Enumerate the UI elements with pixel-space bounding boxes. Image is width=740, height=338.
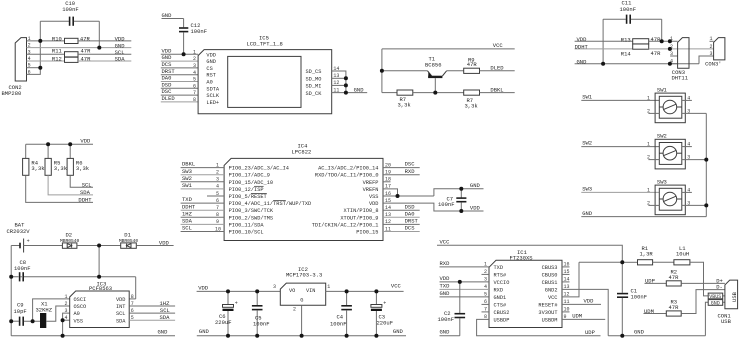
svg-text:SD_MO: SD_MO — [306, 77, 322, 83]
svg-text:VREFP: VREFP — [363, 180, 379, 186]
svg-text:D-: D- — [716, 284, 723, 291]
svg-text:VCCIO: VCCIO — [494, 280, 510, 286]
svg-text:DLED: DLED — [162, 95, 176, 102]
svg-text:R12: R12 — [52, 56, 62, 63]
svg-text:RXD: RXD — [405, 168, 416, 175]
wire SW1 pin4 — [181, 188, 225, 190]
wire DSD pin6 — [161, 87, 198, 89]
svg-text:GND: GND — [711, 300, 720, 306]
wire R11 to SCL — [78, 53, 131, 55]
wire collector to R9 — [447, 70, 464, 72]
wire DRST pin12 — [383, 223, 420, 225]
svg-text:CBUS2: CBUS2 — [494, 310, 510, 316]
junction diode node — [97, 244, 101, 248]
svg-text:VREFN: VREFN — [363, 187, 379, 193]
wire SD_MI pin12 — [332, 84, 346, 86]
resistor R12 47R — [52, 56, 91, 63]
junction C7 top — [459, 187, 463, 191]
wire R14 to CON3' pin2 — [649, 48, 714, 50]
junction pin1 end — [668, 39, 672, 43]
svg-text:8: 8 — [131, 294, 134, 300]
svg-text:DDHT: DDHT — [78, 197, 92, 204]
svg-text:4: 4 — [65, 315, 68, 321]
svg-text:VCC: VCC — [440, 238, 451, 245]
svg-text:DDHT: DDHT — [575, 44, 589, 51]
svg-text:10pF: 10pF — [14, 308, 27, 315]
svg-text:XTOUT/PIO0_9: XTOUT/PIO0_9 — [340, 215, 378, 221]
wire UDP to R2 — [645, 282, 667, 284]
svg-text:OSCI: OSCI — [74, 297, 87, 303]
svg-text:SW1: SW1 — [582, 94, 593, 101]
svg-text:VDD: VDD — [584, 298, 595, 305]
svg-text:SD_CK: SD_CK — [306, 91, 323, 97]
connector CON3' — [705, 36, 725, 67]
svg-text:6: 6 — [193, 83, 196, 89]
svg-text:SDA: SDA — [182, 218, 193, 225]
svg-text:PIO0_15: PIO0_15 — [356, 230, 378, 236]
wire DCS pin3 — [161, 67, 198, 69]
wire GND rail B — [197, 335, 406, 337]
svg-text:A0: A0 — [74, 311, 80, 317]
svg-text:SCL: SCL — [82, 182, 92, 189]
svg-text:VSS: VSS — [74, 318, 84, 324]
svg-text:3: 3 — [709, 51, 712, 57]
svg-text:4: 4 — [687, 142, 690, 148]
svg-text:OSCO: OSCO — [74, 304, 87, 310]
wire C11 right to VDD — [661, 19, 663, 41]
wire USBDP pin8 to UDP — [477, 319, 601, 335]
svg-text:47R: 47R — [669, 274, 680, 281]
svg-text:1: 1 — [193, 49, 196, 55]
svg-text:GND: GND — [393, 328, 404, 335]
wire CON2 pins 1-5-6 vertical — [27, 21, 41, 74]
wire pin2 stub — [482, 273, 490, 275]
svg-text:PIO0_12/ISP: PIO0_12/ISP — [229, 187, 264, 193]
junction C4 — [345, 289, 349, 293]
svg-text:PIO0_4/ADC_11/TRST/WUP/TXD: PIO0_4/ADC_11/TRST/WUP/TXD — [229, 201, 312, 207]
svg-text:CON3': CON3' — [705, 61, 722, 68]
svg-text:VCC: VCC — [391, 283, 402, 290]
junction rail C5 — [255, 334, 259, 338]
svg-text:R14: R14 — [621, 51, 632, 58]
wire R10 to VDD — [78, 40, 131, 42]
wire CON1 GND pin — [705, 302, 725, 336]
capacitor C8 100nF — [14, 259, 31, 282]
capacitor C3 220uF polarized — [371, 291, 393, 335]
wire R1 to L1 — [653, 261, 674, 263]
svg-text:PIO0_15/ADC_10: PIO0_15/ADC_10 — [229, 180, 274, 186]
svg-text:PIO0_3/SWC/TCK: PIO0_3/SWC/TCK — [229, 208, 274, 214]
pin names SD right — [306, 66, 340, 97]
svg-text:1: 1 — [647, 142, 650, 148]
svg-text:100nF: 100nF — [14, 265, 31, 272]
svg-text:RESET#: RESET# — [538, 303, 558, 309]
wire SD_MO pin13 — [332, 77, 346, 79]
wire D2 to D1 — [77, 245, 121, 247]
svg-text:PIO0_10/SCL: PIO0_10/SCL — [229, 230, 264, 236]
svg-text:USBDP: USBDP — [494, 318, 510, 324]
svg-text:GND: GND — [577, 58, 588, 65]
svg-text:MBR0540: MBR0540 — [60, 238, 80, 244]
wire DRST pin4 — [161, 74, 198, 76]
wire SCL pin10 — [181, 231, 225, 233]
svg-text:AC_I3/ADC_2/PIO0_14: AC_I3/ADC_2/PIO0_14 — [318, 166, 378, 172]
wire SW2 pin3 — [181, 181, 225, 183]
svg-text:RXD: RXD — [440, 260, 451, 267]
wire RXD pin1 — [440, 266, 490, 268]
svg-text:CR2032V: CR2032V — [7, 228, 31, 235]
svg-text:GND: GND — [158, 329, 169, 336]
wire R13 to CON3 pin1 — [649, 40, 678, 42]
svg-text:VO: VO — [289, 288, 295, 294]
svg-text:DDHT: DDHT — [182, 203, 196, 210]
svg-text:VDD: VDD — [369, 201, 379, 207]
wire GND pin5 — [440, 296, 490, 298]
wire DSD pin14 — [383, 209, 420, 211]
svg-text:VDD: VDD — [159, 239, 170, 246]
svg-text:CBUS0: CBUS0 — [542, 273, 558, 279]
wire R7b to DBKL — [480, 92, 515, 94]
svg-text:220uF: 220uF — [215, 319, 232, 326]
svg-text:1HZ: 1HZ — [160, 300, 171, 307]
svg-text:GND: GND — [354, 86, 365, 93]
svg-text:VCC: VCC — [548, 295, 558, 301]
svg-text:100nF: 100nF — [438, 316, 455, 323]
diode D1 MBR0540 — [119, 232, 139, 249]
wire pin7 stub — [482, 311, 490, 313]
wire GND rail C — [608, 335, 705, 337]
wire base row left — [382, 92, 397, 94]
svg-text:3: 3 — [273, 284, 276, 290]
wire TXD pin6 — [181, 202, 225, 204]
svg-text:2: 2 — [293, 307, 296, 313]
junction pin16/17 — [396, 194, 400, 198]
svg-text:PCF8563: PCF8563 — [89, 285, 112, 292]
wire pin3 to R11 — [27, 53, 65, 55]
wire pin14 stub — [562, 281, 570, 283]
resistor R5 3,3k — [45, 158, 68, 175]
capacitor C2 100nF — [438, 282, 466, 336]
svg-text:USB: USB — [721, 318, 732, 325]
svg-text:1: 1 — [65, 294, 68, 300]
resistor R10 47R — [52, 36, 91, 44]
wire GND2 pin13 — [562, 289, 608, 335]
svg-text:47R: 47R — [81, 47, 92, 54]
svg-text:100nF: 100nF — [330, 320, 347, 327]
svg-text:GND: GND — [199, 328, 210, 335]
svg-text:3: 3 — [670, 51, 673, 57]
svg-text:XTIN/PIO0_8: XTIN/PIO0_8 — [344, 208, 379, 214]
wire R7 to base — [413, 92, 464, 94]
svg-text:PIO0_23/ADC_3/AC_I4: PIO0_23/ADC_3/AC_I4 — [229, 166, 289, 172]
svg-text:SW2: SW2 — [582, 140, 592, 147]
svg-text:2: 2 — [709, 44, 712, 50]
svg-text:SCL: SCL — [182, 225, 192, 232]
junction C3 — [374, 289, 378, 293]
junction base — [433, 91, 437, 95]
wire GND row — [575, 63, 699, 65]
svg-text:1: 1 — [327, 284, 330, 290]
svg-text:220uF: 220uF — [377, 319, 394, 326]
battery BAT CR2032V — [7, 222, 63, 253]
wire OSCI from C9 node — [33, 299, 70, 321]
IC regulator IC2 MCP1703-3.3 — [273, 266, 330, 313]
junction C7 bottom — [459, 209, 463, 213]
svg-text:PIO0_17/ADC_9: PIO0_17/ADC_9 — [229, 173, 270, 179]
wire USBDM pin9 to UDM — [562, 318, 605, 320]
svg-text:1: 1 — [709, 36, 712, 42]
junction rail C9 — [9, 319, 13, 323]
svg-text:SDA: SDA — [160, 314, 171, 321]
junction C12/pin1 — [182, 52, 186, 56]
svg-text:SCL: SCL — [160, 307, 170, 314]
wire C12 to VDD pin1 — [183, 32, 185, 54]
junction C5 — [255, 289, 259, 293]
svg-text:1: 1 — [647, 95, 650, 101]
wire C11 left to GND — [602, 19, 604, 64]
wire DLED pin8 — [161, 101, 198, 103]
svg-text:DBKL: DBKL — [490, 86, 503, 93]
wire R3 to D- — [681, 290, 725, 314]
svg-text:GND1: GND1 — [494, 295, 507, 301]
wire DCS pin11 — [383, 231, 420, 233]
wire pin8 VDD riser — [135, 277, 137, 299]
wire R4 bottom to DDHT — [26, 175, 93, 202]
svg-text:3,3k: 3,3k — [31, 165, 45, 172]
svg-text:5: 5 — [193, 77, 196, 83]
svg-text:TXD: TXD — [494, 265, 504, 271]
wire R6 bottom to SCL — [70, 175, 93, 187]
svg-text:PIO0_2/SWD/TMS: PIO0_2/SWD/TMS — [229, 215, 274, 221]
wire VDD pin3 — [440, 281, 490, 283]
wire pin16 stub — [562, 266, 570, 268]
svg-text:VCC: VCC — [493, 42, 504, 49]
junction pin13 — [344, 76, 348, 80]
wire X1 right to OSCO — [46, 306, 69, 321]
resistor R1 1,3R — [638, 245, 654, 265]
wire R5 bottom to SDA — [48, 175, 93, 195]
wire SW1 pin3 — [682, 112, 707, 114]
capacitor C12 100nF — [179, 22, 207, 35]
svg-text:DBKL: DBKL — [182, 161, 195, 168]
wire SW2 pin3 — [682, 159, 707, 161]
wire pin6 to SCL — [129, 312, 175, 314]
wire pin7 to 1HZ — [129, 305, 175, 307]
wire R12 to SDA — [78, 60, 131, 62]
junction SW3 pin3 — [704, 203, 708, 207]
wire diode node down to C8 node — [98, 246, 100, 277]
wire DSC pin20 — [383, 167, 420, 169]
svg-text:SD_MI: SD_MI — [306, 84, 322, 90]
svg-text:VSS: VSS — [369, 194, 379, 200]
svg-text:MCP1703-3.3: MCP1703-3.3 — [286, 272, 322, 279]
wire pin5 — [27, 67, 41, 69]
svg-text:4: 4 — [193, 70, 196, 76]
wire L1 to VBUS — [690, 262, 725, 296]
wire A0 VSS tie — [63, 313, 70, 336]
svg-text:CTS#: CTS# — [494, 303, 508, 309]
wire R1 lead — [622, 261, 637, 263]
svg-text:+: + — [235, 301, 238, 307]
svg-text:10uH: 10uH — [676, 251, 689, 258]
svg-text:3,3k: 3,3k — [398, 101, 412, 108]
capacitor C4 100nF — [330, 291, 352, 335]
wire C2 GND stub — [440, 335, 460, 337]
wire pin10 stub — [562, 311, 570, 313]
svg-text:+: + — [383, 301, 386, 307]
svg-text:MBR0540: MBR0540 — [119, 238, 139, 244]
junction pin11 — [344, 91, 348, 95]
wire DA0 pin13 — [383, 216, 420, 218]
wire 1HZ pin8 — [181, 216, 225, 218]
capacitor C6 220uF polarized — [215, 291, 238, 335]
crystal X1 32KHZ — [36, 300, 53, 328]
svg-text:32KHZ: 32KHZ — [36, 307, 53, 314]
inductor L1 10uH — [674, 245, 690, 265]
junction rail IC2 — [300, 334, 304, 338]
wire UDM to R3 — [644, 313, 667, 315]
wire switches GND vertical — [705, 113, 707, 216]
svg-text:R10: R10 — [52, 36, 62, 43]
junction rail A0/VSS — [61, 334, 65, 338]
svg-text:3,3k: 3,3k — [54, 165, 68, 172]
svg-text:47R: 47R — [467, 61, 478, 68]
wire R5 top — [47, 144, 49, 158]
junction R5 top — [46, 142, 50, 146]
wire pin15 stub — [562, 273, 570, 275]
svg-text:2: 2 — [647, 200, 650, 206]
svg-text:SW1: SW1 — [182, 182, 193, 189]
svg-text:RXD: RXD — [494, 288, 504, 294]
junction C11/VDD — [660, 39, 664, 43]
IC mcu IC4 LPC822 — [215, 143, 391, 241]
svg-text:SW2: SW2 — [182, 175, 192, 182]
svg-text:2: 2 — [647, 155, 650, 161]
wire VDD row — [575, 40, 633, 42]
wire VSS to GND line — [434, 189, 484, 196]
junction pin5 — [38, 66, 42, 70]
svg-text:2: 2 — [647, 108, 650, 114]
switch SW3 — [647, 178, 692, 214]
switch SW1 — [647, 86, 692, 122]
svg-text:1: 1 — [647, 187, 650, 193]
wire emitter — [382, 70, 428, 72]
svg-text:100nF: 100nF — [631, 294, 648, 301]
svg-text:GND: GND — [206, 59, 216, 65]
wire VCC top — [382, 48, 515, 50]
svg-text:VDD: VDD — [206, 52, 216, 58]
wire VDD pin1 — [161, 53, 198, 55]
svg-text:DSD: DSD — [405, 203, 416, 210]
junction rail C3 — [374, 334, 378, 338]
svg-text:CS: CS — [206, 66, 212, 72]
svg-text:SW3: SW3 — [182, 168, 192, 175]
svg-text:8: 8 — [193, 97, 196, 103]
junction VSS — [61, 318, 65, 322]
wire SW3 net — [581, 191, 659, 193]
svg-text:47R: 47R — [651, 36, 662, 43]
resistor R9 47R — [464, 56, 480, 73]
svg-text:DA0: DA0 — [405, 210, 415, 217]
wire CON3' pin3 to GND — [699, 56, 714, 64]
capacitor C7 100nF — [438, 189, 466, 211]
resistor R4 3,3k — [23, 158, 46, 175]
svg-text:SD_CS: SD_CS — [306, 69, 322, 75]
svg-text:SCL: SCL — [116, 311, 126, 317]
wire DDHT row — [575, 48, 633, 50]
wire C8 node horizontal — [11, 276, 136, 278]
svg-text:47R: 47R — [651, 50, 662, 57]
svg-text:100nF: 100nF — [620, 6, 637, 13]
svg-text:PIO0_11/SDA: PIO0_11/SDA — [229, 222, 265, 228]
wire IC2 pin2 down — [301, 305, 303, 336]
junction pin1 — [38, 39, 42, 43]
capacitor C1 100nF — [617, 262, 647, 336]
junction VCC/R1/C1 — [620, 260, 624, 264]
wire RESET pin11 to VDD — [562, 303, 601, 305]
junction rail C8 — [9, 275, 13, 279]
svg-text:2: 2 — [193, 56, 196, 62]
resistor R2 47R — [666, 269, 681, 286]
junction R6 top — [68, 142, 72, 146]
wire pin3 stub — [670, 55, 678, 57]
svg-text:RXD/TDO/AC_I1/PIO0_0: RXD/TDO/AC_I1/PIO0_0 — [315, 173, 379, 179]
resistor R11 47R — [52, 47, 91, 57]
svg-text:VDD: VDD — [440, 275, 451, 282]
capacitor C10 — [40, 0, 99, 26]
svg-text:1HZ: 1HZ — [182, 210, 193, 217]
junction pin12 — [344, 83, 348, 87]
svg-text:GND: GND — [440, 290, 451, 297]
wire VCC horiz to C1 — [579, 261, 622, 263]
svg-text:CBUS3: CBUS3 — [542, 265, 558, 271]
svg-text:LED+: LED+ — [206, 100, 219, 106]
svg-text:GND: GND — [162, 12, 173, 19]
wire SD_CS pin14 — [332, 71, 346, 93]
svg-text:TXD: TXD — [182, 196, 193, 203]
wire SDA pin9 — [181, 223, 225, 225]
svg-text:DSC: DSC — [405, 161, 416, 168]
svg-text:GND: GND — [582, 210, 593, 217]
svg-text:UDP: UDP — [585, 329, 595, 336]
wire pin4 to R12 — [27, 60, 65, 62]
svg-text:INT: INT — [116, 304, 126, 310]
svg-text:USB: USB — [731, 291, 738, 302]
label box VRUS — [708, 293, 723, 300]
svg-text:BC856: BC856 — [425, 61, 442, 68]
capacitor C9 10pF — [11, 302, 40, 326]
svg-text:GND: GND — [470, 182, 481, 189]
svg-text:VIN: VIN — [306, 288, 316, 294]
wire pin6 stub — [482, 303, 490, 305]
wire GND row — [581, 216, 706, 218]
svg-text:TXD: TXD — [440, 283, 451, 290]
wire R6 top — [69, 144, 71, 158]
svg-text:SDA: SDA — [116, 318, 126, 324]
wire VREFP pin18 stub — [383, 181, 391, 183]
wire R9 to DLED — [480, 70, 515, 72]
wire GND pin2 — [161, 60, 198, 62]
wire R4 top — [25, 144, 27, 158]
svg-text:GND: GND — [634, 329, 645, 336]
wire VSS pin16 — [383, 195, 434, 197]
connector CON1 USB — [718, 280, 739, 325]
svg-text:BMP280: BMP280 — [2, 90, 22, 97]
svg-text:100nF: 100nF — [253, 320, 270, 327]
IC op IC3 PCF8563 — [65, 280, 134, 327]
wire VCC line — [437, 245, 622, 262]
resistor R7 3,3k — [397, 90, 413, 108]
